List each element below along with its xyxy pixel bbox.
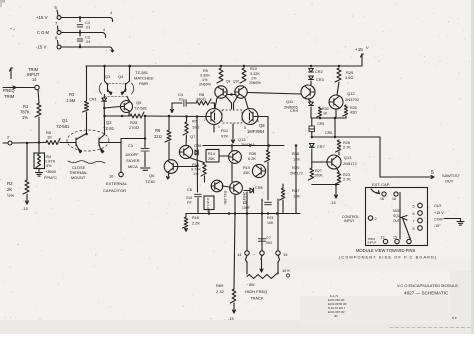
capacitor C6 xyxy=(195,193,202,195)
svg-text:1K: 1K xyxy=(323,112,328,116)
wire Q11 top xyxy=(310,81,312,85)
svg-text:8: 8 xyxy=(413,227,415,231)
svg-text:R25: R25 xyxy=(350,106,357,110)
wire QA leads xyxy=(231,146,233,152)
wire Q9 emitter to Q8 xyxy=(215,98,217,108)
emitter arrow Q6 xyxy=(168,173,169,179)
terminal 14 bottom xyxy=(245,251,249,255)
wire sawtooth row xyxy=(312,136,380,138)
svg-text:OUT: OUT xyxy=(434,204,442,208)
svg-text:CR1: CR1 xyxy=(89,97,97,102)
svg-text:R1: R1 xyxy=(23,104,29,109)
svg-text:Q5: Q5 xyxy=(136,100,142,105)
terminal 7 (COM) xyxy=(57,31,61,35)
wire CR7 to R27 xyxy=(311,149,313,168)
module pin 15 xyxy=(395,239,399,243)
transistor Q9 xyxy=(215,86,227,98)
wire QD down xyxy=(234,194,236,214)
svg-text:2N5172: 2N5172 xyxy=(343,161,357,166)
fet Q8 left half xyxy=(206,109,222,125)
svg-text:7: 7 xyxy=(413,220,415,224)
arrow -15 lower xyxy=(335,185,337,199)
diode CR2 xyxy=(309,69,314,73)
resistor R12 9.76K xyxy=(201,163,206,176)
svg-text:10 K: 10 K xyxy=(282,268,290,273)
wire R2 branch xyxy=(26,144,28,180)
svg-text:1%: 1% xyxy=(202,78,208,82)
svg-text:Q3: Q3 xyxy=(105,74,111,79)
module pin 18 xyxy=(382,192,386,196)
wire R11 arrow xyxy=(232,124,234,143)
terminal 2 (control) xyxy=(3,142,8,144)
svg-text:R19: R19 xyxy=(243,166,250,170)
transistor QD xyxy=(230,182,243,195)
svg-text:2K: 2K xyxy=(7,187,12,192)
wire trim input xyxy=(3,87,35,89)
svg-text:2N60%: 2N60% xyxy=(249,81,262,85)
svg-text:V: V xyxy=(366,45,369,50)
svg-text:210: 210 xyxy=(186,196,192,200)
svg-text:TRACK: TRACK xyxy=(250,296,264,301)
resistor R9 3.32K xyxy=(217,68,223,83)
wire +15V drop xyxy=(361,54,363,66)
emitter arrow Q1 xyxy=(78,149,81,154)
svg-text:18: 18 xyxy=(380,197,384,201)
terminal 17 bottom xyxy=(260,251,264,255)
svg-text:TZ'81: TZ'81 xyxy=(145,179,156,184)
diode CR3 xyxy=(309,76,314,80)
wire R29 to Q12 xyxy=(337,82,339,95)
wire Q2 base to ext cap node xyxy=(99,142,121,144)
svg-text:14: 14 xyxy=(32,77,37,82)
current arrow xyxy=(171,103,173,113)
svg-text:.01: .01 xyxy=(85,25,91,30)
svg-text:5: 5 xyxy=(244,126,246,130)
svg-text:22Ω: 22Ω xyxy=(154,134,162,139)
svg-text:R21: R21 xyxy=(267,216,274,220)
terminal 14 trim xyxy=(35,85,39,89)
svg-text:2N4248: 2N4248 xyxy=(241,142,255,147)
svg-text:-15: -15 xyxy=(22,206,29,211)
wire mirror row xyxy=(105,115,131,117)
svg-text:CR8: CR8 xyxy=(255,186,263,190)
pot wiper xyxy=(261,256,262,260)
svg-text:MICA: MICA xyxy=(128,164,138,169)
wire cluster top xyxy=(203,145,214,147)
svg-text:-15′′: -15′′ xyxy=(434,224,441,228)
svg-text:2.2K: 2.2K xyxy=(192,221,200,226)
svg-text:3.6Ω: 3.6Ω xyxy=(345,75,353,80)
svg-text:CR3: CR3 xyxy=(316,77,324,82)
wire -15 row xyxy=(312,184,339,186)
wire cluster bottom row xyxy=(186,213,300,215)
svg-text:787K: 787K xyxy=(20,110,30,115)
svg-text:1%: 1% xyxy=(193,172,199,176)
wire Q12 emitter xyxy=(335,109,337,118)
svg-text:R37: R37 xyxy=(292,188,300,193)
wire R5 to Q1 base xyxy=(60,142,65,144)
resistor R23 2.7K xyxy=(336,172,341,184)
wire QB to C5 xyxy=(267,162,269,200)
svg-text:EXTERNAL: EXTERNAL xyxy=(106,181,128,186)
svg-text:6: 6 xyxy=(413,212,415,216)
wire QC QD base xyxy=(222,186,230,187)
resistor R10 3.32K xyxy=(240,68,246,83)
svg-text:10K: 10K xyxy=(293,194,300,199)
wire R1 to node xyxy=(38,117,40,142)
resistor R36 12K xyxy=(265,150,270,162)
svg-text:TZ-581: TZ-581 xyxy=(56,124,70,129)
wire CR4 to row xyxy=(310,107,312,118)
dashed ellipse Q1 Q2 pair xyxy=(67,130,109,151)
module diagonal xyxy=(403,220,411,240)
dashed box Q8 xyxy=(222,110,242,123)
svg-text:+15: +15 xyxy=(355,47,363,52)
wire sawtooth out xyxy=(380,176,434,178)
ground module xyxy=(457,221,464,223)
svg-text:2: 2 xyxy=(375,216,377,221)
wire sawtooth drop xyxy=(379,137,381,177)
svg-text:2N3702: 2N3702 xyxy=(345,97,360,102)
svg-text:10PF: 10PF xyxy=(242,206,250,210)
resistor R28 270 xyxy=(130,112,144,118)
resistor R6 22 xyxy=(168,116,170,130)
module center line xyxy=(399,193,401,240)
wire R6 to Q6 xyxy=(168,142,170,160)
resistor R26 2.7K xyxy=(336,140,341,152)
svg-text:15: 15 xyxy=(283,252,288,257)
capacitor C2 .01 xyxy=(77,38,83,40)
arrow -15 R69 xyxy=(233,303,235,313)
diode CR7 xyxy=(309,144,314,148)
emitter arrow Q4 xyxy=(121,92,124,95)
svg-text:CR4: CR4 xyxy=(290,108,299,113)
svg-text:R69: R69 xyxy=(216,283,224,288)
wire input row xyxy=(12,142,46,145)
svg-text:Q9: Q9 xyxy=(226,80,230,84)
module pin 2 xyxy=(368,216,372,220)
svg-text:PF: PF xyxy=(187,201,192,205)
transistor Q12 xyxy=(329,95,343,109)
wire to C4 xyxy=(172,102,182,104)
svg-text:C7: C7 xyxy=(266,236,271,240)
transistor Q6 xyxy=(164,160,178,174)
svg-text:HIGH FREQ: HIGH FREQ xyxy=(245,289,267,294)
pot right leg xyxy=(278,256,280,263)
wire +15 top rail xyxy=(86,65,362,67)
svg-text:CR6: CR6 xyxy=(325,131,332,135)
module pin 6 xyxy=(418,211,423,216)
resistor R5 1K xyxy=(46,139,60,145)
svg-text:TZ-581: TZ-581 xyxy=(135,70,149,75)
svg-text:6.2K: 6.2K xyxy=(248,156,256,161)
svg-text:5: 5 xyxy=(413,205,415,209)
wire -15V rail xyxy=(61,46,110,48)
svg-text:1000PF: 1000PF xyxy=(125,152,139,157)
svg-text:PAIR: PAIR xyxy=(139,81,148,86)
wire Q5 emitter xyxy=(128,112,131,116)
boxed resistor R18 3.01K xyxy=(204,196,214,210)
svg-text:R30: R30 xyxy=(322,107,329,111)
wire CR5 down xyxy=(311,118,313,126)
svg-text:1%: 1% xyxy=(251,77,257,81)
svg-text:360Ω: 360Ω xyxy=(196,97,205,102)
svg-text:4: 4 xyxy=(103,28,105,32)
svg-text:R12: R12 xyxy=(192,163,199,167)
svg-text:MATCHED: MATCHED xyxy=(134,76,154,81)
svg-text:C4: C4 xyxy=(178,92,184,97)
wire +15V rail to bypass bus xyxy=(61,17,110,19)
svg-text:9.76K: 9.76K xyxy=(191,168,201,172)
wire com to ground xyxy=(444,218,461,220)
transistor Q3 (bare) xyxy=(105,81,108,85)
wire C6 riser xyxy=(196,117,199,193)
svg-text:.01: .01 xyxy=(85,39,91,44)
svg-text:3.32K: 3.32K xyxy=(250,72,260,76)
capacitor C7 .002 xyxy=(258,238,265,240)
wire R4 to ground xyxy=(38,169,40,172)
resistor R3 1.5M xyxy=(86,66,88,101)
svg-text:MOUNT: MOUNT xyxy=(71,175,86,180)
svg-text:TRIM: TRIM xyxy=(4,94,15,99)
svg-text:13: 13 xyxy=(381,236,385,240)
wire R69 drop xyxy=(234,214,235,290)
svg-text:2.7K: 2.7K xyxy=(343,178,351,182)
svg-text:2.7K: 2.7K xyxy=(343,146,351,150)
wire COM rail xyxy=(61,32,103,34)
svg-text:1K: 1K xyxy=(47,135,52,140)
svg-text:Q4: Q4 xyxy=(118,74,124,79)
emitter arrow Q3 xyxy=(109,92,112,95)
svg-text:Q1: Q1 xyxy=(62,118,68,123)
terminal 6 (+15V) xyxy=(57,16,61,20)
wire Q7 emitter to R12 xyxy=(189,158,204,163)
svg-text:-15: -15 xyxy=(330,200,336,205)
resistor R29 3.6 xyxy=(335,68,341,82)
wire Q9-Q10 cross xyxy=(225,96,232,104)
svg-text:½%: ½% xyxy=(7,193,14,198)
svg-text:(COMPONENT SIDE OF P.C BOA: (COMPONENT SIDE OF P.C BOARD) xyxy=(339,255,437,260)
wire under Q8 row xyxy=(214,145,284,147)
ground bar below C3 xyxy=(141,167,151,169)
svg-text:R10: R10 xyxy=(250,67,257,71)
svg-text:Q7: Q7 xyxy=(190,134,196,139)
svg-text:16: 16 xyxy=(109,174,113,179)
svg-text:3.32K: 3.32K xyxy=(200,74,210,78)
capacitor C1 .01 xyxy=(77,24,83,26)
svg-text:.01: .01 xyxy=(178,98,183,102)
svg-text:14: 14 xyxy=(237,252,242,257)
svg-text:C3: C3 xyxy=(128,143,133,148)
svg-text:R14 25K: R14 25K xyxy=(223,191,227,205)
svg-text:+15 V: +15 V xyxy=(36,15,48,20)
svg-text:CR2: CR2 xyxy=(315,69,323,74)
svg-text:.002: .002 xyxy=(265,241,272,245)
scanner dashed artifact xyxy=(390,327,470,329)
svg-text:15: 15 xyxy=(393,236,397,240)
resistor R4 boxed thermal xyxy=(34,153,45,169)
svg-text:+15 V: +15 V xyxy=(434,211,444,215)
resistor R37 10K xyxy=(280,188,285,200)
svg-text:R3: R3 xyxy=(69,92,75,97)
module outline box xyxy=(366,188,428,246)
wire Q5 collector xyxy=(127,97,129,102)
svg-text:INPUT: INPUT xyxy=(368,241,377,245)
emitter arrow Q2 xyxy=(101,149,104,154)
transistor QC xyxy=(211,180,223,192)
svg-text:Q8: Q8 xyxy=(259,123,265,128)
svg-text:R14: R14 xyxy=(208,152,215,156)
wire C4 to R8 xyxy=(187,102,196,104)
wire right cluster drop xyxy=(295,146,297,214)
svg-text:SAWTOO': SAWTOO' xyxy=(442,173,460,178)
svg-text:1.5M: 1.5M xyxy=(66,98,76,103)
svg-text:5: 5 xyxy=(431,170,434,176)
svg-text:7: 7 xyxy=(204,118,206,122)
svg-text:2N60%: 2N60% xyxy=(199,83,212,87)
resistor R1 787K xyxy=(35,103,41,117)
wire Q8 left source down xyxy=(213,125,215,133)
svg-text:1%: 1% xyxy=(22,115,28,120)
svg-text:R9: R9 xyxy=(203,69,208,73)
dashed bracket Q3 Q4 matched pair xyxy=(99,83,101,94)
wire hook COM right end xyxy=(103,33,106,38)
svg-text:V.C.O ENCAPSULATED MODULE: V.C.O ENCAPSULATED MODULE xyxy=(397,283,458,288)
svg-text:SQU: SQU xyxy=(393,214,401,218)
transistor Q13 lower xyxy=(327,155,341,169)
wire terminal 14 drop xyxy=(246,192,248,251)
wire Q10 emitter to Q8 xyxy=(245,98,248,108)
svg-text:R11: R11 xyxy=(221,128,229,133)
arrow to -15 below R2 xyxy=(26,194,28,204)
wire mid row xyxy=(311,117,346,119)
wire R4 branch xyxy=(38,144,40,152)
svg-text:1MF3954: 1MF3954 xyxy=(247,129,265,134)
resistor R7 10 ohm xyxy=(186,117,188,123)
svg-text:2: 2 xyxy=(7,135,9,140)
transistor Q5 xyxy=(121,101,133,113)
wire hook -15 right end xyxy=(110,47,113,52)
wire trim to R1 xyxy=(38,90,39,103)
resistor R27 100K xyxy=(308,168,313,180)
wire R28 right xyxy=(144,115,206,118)
resistor R69 2.32 xyxy=(230,289,235,303)
svg-text:TZ-581: TZ-581 xyxy=(134,106,148,111)
paper speck dots xyxy=(10,28,12,30)
svg-text:Q13: Q13 xyxy=(344,155,351,160)
svg-text:R6: R6 xyxy=(155,128,161,133)
module pin 5 xyxy=(418,203,423,208)
svg-text:―: ― xyxy=(252,252,256,256)
fet Q8 right half xyxy=(242,109,258,125)
wire C3 branch xyxy=(144,116,146,148)
capacitor C3 xyxy=(141,148,149,150)
bypass bus wire xyxy=(79,18,81,22)
svg-text:~ 6W: ~ 6W xyxy=(246,283,255,287)
svg-text:270Ω: 270Ω xyxy=(129,125,139,130)
wire R8 to Q8 gate xyxy=(211,102,215,104)
wire hook +15 right end xyxy=(110,18,113,22)
brace close thermal mount xyxy=(68,161,105,164)
freq trim arrow xyxy=(10,68,12,77)
svg-text:EXT. CAP.: EXT. CAP. xyxy=(372,182,390,187)
resistor R25 43 xyxy=(343,105,348,116)
svg-text:R26: R26 xyxy=(343,141,350,145)
terminal 15 bottom xyxy=(276,251,280,255)
ext cap loop wire xyxy=(121,138,145,140)
svg-text:PPM/°C: PPM/°C xyxy=(44,176,57,180)
svg-text:COM: COM xyxy=(434,218,443,222)
svg-text:12K: 12K xyxy=(293,157,300,162)
wire terminal 15 drop xyxy=(277,199,279,251)
svg-text:C O M: C O M xyxy=(37,30,49,35)
svg-text:4: 4 xyxy=(110,11,112,15)
svg-text:Q2: Q2 xyxy=(106,120,112,125)
module pin 13 xyxy=(383,239,387,243)
svg-text:43K: 43K xyxy=(243,171,250,175)
transistor Q1 (bare) xyxy=(75,138,77,146)
pot left leg xyxy=(246,256,248,263)
svg-text:16: 16 xyxy=(392,197,396,201)
ground below R4 xyxy=(36,172,43,174)
capacitor C4 .01 xyxy=(183,100,185,107)
transistor Q2 (bare) xyxy=(98,138,100,146)
wire Q3 collector xyxy=(104,66,106,81)
svg-text:R2: R2 xyxy=(7,181,13,186)
capacitor C5 electrolytic xyxy=(265,201,272,203)
potentiometer 10K high freq track xyxy=(247,273,278,279)
svg-text:R23: R23 xyxy=(343,173,350,177)
wire Q6 base to C6 riser xyxy=(178,166,198,168)
svg-text:Q12: Q12 xyxy=(347,91,355,96)
svg-text:OUT: OUT xyxy=(393,219,400,223)
transistor Q7 xyxy=(179,145,192,158)
resistor R16 2.2K xyxy=(185,214,187,218)
svg-text:Q6: Q6 xyxy=(149,173,155,178)
svg-text:4027 — SCHEMATIC: 4027 — SCHEMATIC xyxy=(404,291,449,296)
svg-text:C6: C6 xyxy=(187,187,192,192)
corner mark xyxy=(0,0,5,3)
wire Q3 to input node xyxy=(103,103,105,135)
svg-text:2.32: 2.32 xyxy=(216,289,225,294)
transistor QA xyxy=(229,151,242,164)
svg-text:OUT: OUT xyxy=(445,179,454,184)
svg-text:43Ω: 43Ω xyxy=(350,111,357,115)
svg-text:-15: -15 xyxy=(228,316,234,321)
svg-text:+3500: +3500 xyxy=(45,169,57,174)
wire terminal 17 drop xyxy=(261,199,263,251)
svg-text:MODULE VIEW TOWARD PINS: MODULE VIEW TOWARD PINS xyxy=(356,248,416,253)
resistor R2 2K xyxy=(23,180,29,194)
svg-text:Q10: Q10 xyxy=(233,80,239,84)
wire Q10 to Q11 base xyxy=(248,93,302,95)
transistor Q4 (bare) xyxy=(126,81,130,85)
transistor QB xyxy=(252,164,265,177)
svg-text:97K: 97K xyxy=(221,134,228,139)
svg-text:JR: JR xyxy=(334,314,338,318)
module pin 8 xyxy=(418,226,423,231)
wire CR1 node to Q5 base xyxy=(104,107,120,109)
ext cap arrow xyxy=(371,189,379,194)
svg-text:R27: R27 xyxy=(315,169,322,173)
svg-text:100K: 100K xyxy=(314,174,323,178)
resistor R30 1K xyxy=(317,107,322,117)
module pin 7 xyxy=(418,218,423,223)
svg-text:CAPACITOR: CAPACITOR xyxy=(103,188,126,193)
terminal 16 external capacitor xyxy=(119,172,123,176)
svg-text:1: 1 xyxy=(218,125,220,129)
svg-text:v ε: v ε xyxy=(452,315,457,320)
